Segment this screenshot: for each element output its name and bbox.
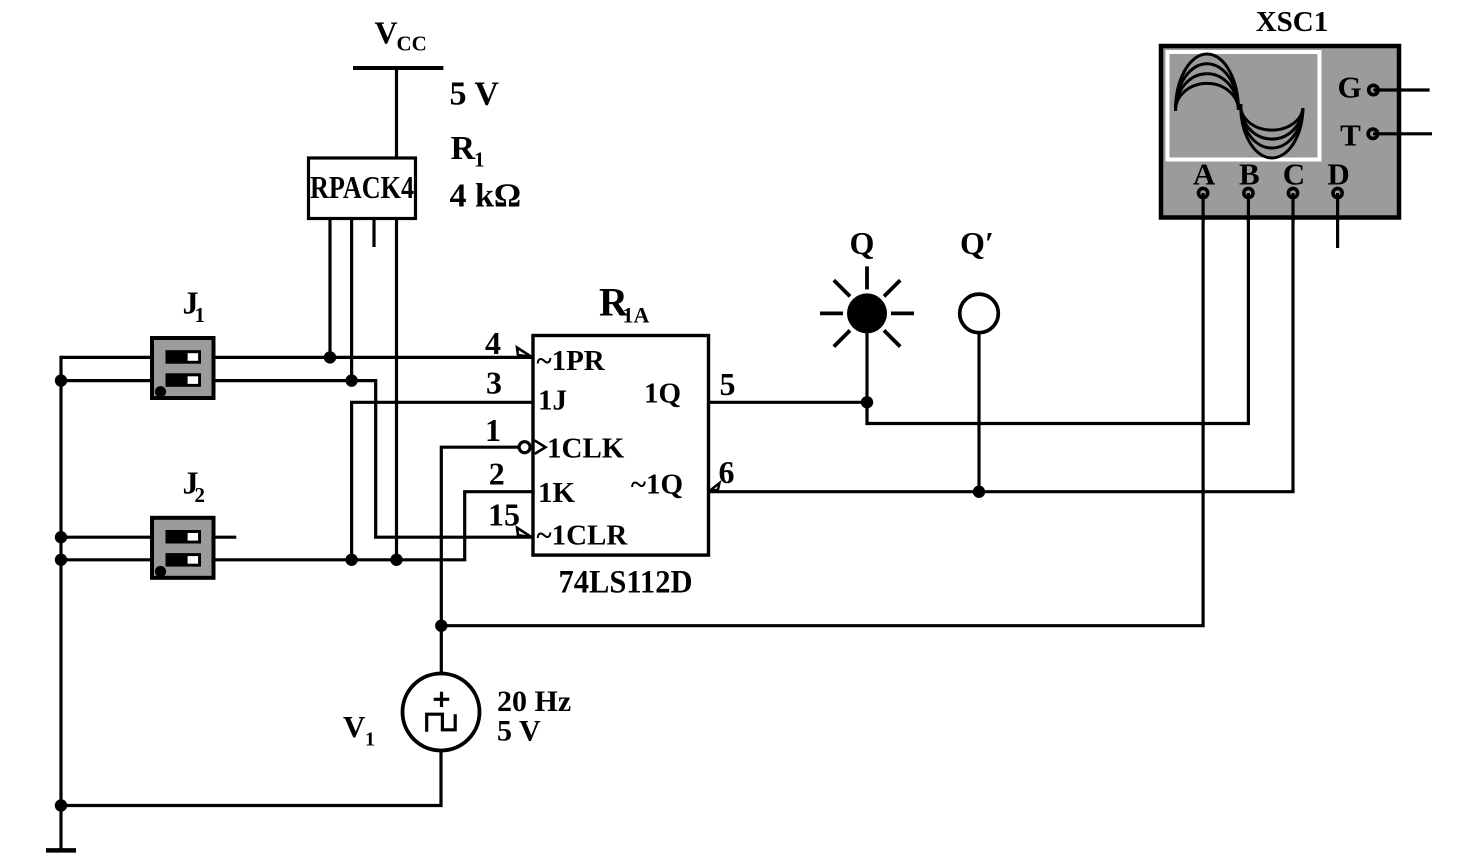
JK flip-flop U1 74LS112D body [533,336,709,556]
svg-text:4 kΩ: 4 kΩ [450,178,522,215]
svg-text:D: D [1327,157,1349,192]
svg-text:2: 2 [195,483,206,507]
lamp Q body [847,293,887,333]
junction: clock / channel A net [435,620,447,632]
wire: 1J pin 3 feed from J2 lower net [352,402,533,560]
wire: J2 lower net to pin 2 1K [61,492,533,560]
svg-text:Q: Q [850,225,875,261]
svg-text:T: T [1340,118,1361,153]
svg-text:B: B [1239,157,1260,192]
switch J1 pivot dot [155,386,166,397]
svg-text:1: 1 [365,729,375,751]
wire: channel A net V1 to scope [441,193,1203,626]
svg-text:C: C [1283,157,1305,192]
junction: 1J feed / J2 lower net [345,554,357,566]
lamp Q rays [820,266,914,346]
wire: RPACK4 pin1 down to ~1PR net [328,218,331,357]
svg-text:5 V: 5 V [497,715,541,748]
pin 4 arrow tick [517,348,532,357]
junction: RPACK4 pin1 / ~1PR net [324,351,336,363]
wire: V1 minus to ground bus [61,750,441,806]
svg-text:4: 4 [485,325,501,361]
svg-text:Q′: Q′ [960,225,994,261]
svg-text:1A: 1A [623,303,650,328]
svg-text:1K: 1K [538,477,576,509]
svg-text:1: 1 [195,303,206,327]
switch J2 toggle 1 [166,530,202,544]
svg-text:XSC1: XSC1 [1256,6,1329,38]
wire: RPACK4 pin3 stub (unconnected) [372,218,375,247]
junction: bus / J1 lower [55,374,67,386]
svg-text:CC: CC [397,32,427,56]
svg-text:1CLK: 1CLK [547,433,625,465]
svg-text:1: 1 [474,148,485,172]
oscilloscope XSC1 body [1161,46,1399,218]
pin 6 arrow tick [709,483,720,491]
svg-text:RPACK4: RPACK4 [310,169,414,205]
switch J1 toggle 2 [166,373,202,387]
resistor pack R1 RPACK4 body [309,158,416,219]
svg-text:5 V: 5 V [450,76,500,113]
pin 1 clock bubble [519,442,530,453]
wire: ~1Q pin 6 / channel C net [707,193,1294,492]
svg-text:~1PR: ~1PR [537,345,606,377]
switch J2 pivot dot [155,566,166,577]
wire: probe Q' drop [977,334,980,492]
probe Q' body [960,294,999,333]
switch J2 body [152,518,214,578]
V1 plus sign [434,698,450,701]
wire: J1 upper net to pin 4 ~1PR [61,356,533,359]
XSC1 screen waveform [1175,54,1303,158]
wire: J2 upper stub [61,536,236,539]
svg-text:15: 15 [488,497,520,533]
ground symbol [46,848,76,853]
junction: probe Q' / ~1Q net [973,486,985,498]
svg-text:1J: 1J [538,385,567,417]
svg-text:20 Hz: 20 Hz [497,685,571,718]
wire: 1Q pin 5 to lamp Q [707,401,868,404]
wire: J1 lower net to pin 15 ~1CLR [61,381,533,538]
svg-text:~1Q: ~1Q [631,469,683,501]
wire: lamp Q drop / channel B net [867,193,1248,424]
svg-text:1Q: 1Q [644,378,681,410]
junction: RPACK4 pin2 / ~1CLR net [345,374,357,386]
svg-text:74LS112D: 74LS112D [559,565,693,601]
junction: bus / V1 return [55,799,67,811]
svg-text:2: 2 [489,456,505,492]
wire: RPACK4 pin2 down to J1 lower net [350,218,353,381]
svg-text:A: A [1193,157,1216,192]
junction: bus / J2 lower [55,554,67,566]
clock triangle [535,441,546,454]
switch J1 body [152,338,214,398]
svg-text:5: 5 [720,366,736,402]
svg-text:G: G [1337,70,1361,105]
junction: RPACK4 pin4 / J2 lower net [390,554,402,566]
XSC1 screen [1168,52,1320,160]
svg-text:3: 3 [486,365,502,401]
svg-text:V: V [343,709,366,744]
svg-text:~1CLR: ~1CLR [537,520,629,552]
wire: RPACK4 pin4 down to J2 lower net [395,218,398,560]
junction: lamp Q / 1Q net [861,396,873,408]
svg-text:R: R [451,130,476,167]
wire: scope D stub [1336,193,1339,248]
V1 square-wave glyph [427,714,456,732]
pin 15 arrow tick [517,528,532,537]
VCC power symbol [353,66,443,70]
source V1 body [403,674,480,751]
switch J2 toggle 2 [166,553,202,567]
wire: left ground bus [59,356,62,851]
wire: VCC rail drop to RPACK4 [395,68,398,158]
svg-text:1: 1 [485,412,501,448]
svg-text:6: 6 [719,454,735,490]
svg-text:V: V [375,15,398,51]
junction: bus / J2 upper [55,531,67,543]
wire: clock net pin 1 to V1 [441,447,518,673]
switch J1 toggle 1 [166,350,202,364]
